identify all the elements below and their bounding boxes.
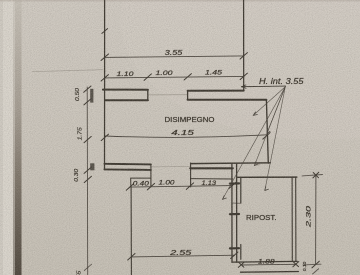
tick dim3 a (126, 184, 133, 191)
right wall of DISIMPEGNO (266, 100, 268, 164)
corridor wall bar 1 (230, 182, 239, 184)
tick 2.55 right (231, 252, 238, 259)
bottom wall right block left jamb (190, 163, 192, 187)
tick chain 0.50 bottom (84, 99, 91, 105)
leader fan line 3 (254, 87, 285, 166)
top-right light sheen (120, 0, 360, 140)
RIPOST right wall inner line (295, 177, 297, 261)
leader fan line 4 (223, 87, 286, 200)
left page-edge light strip (0, 0, 16, 275)
top wall left block right cap (147, 90, 149, 101)
leader fan line 2 (267, 87, 286, 134)
tick dim3 b (147, 183, 154, 190)
arrowhead 3 (254, 162, 258, 166)
tick dim2 d (240, 73, 247, 80)
tick 2.30 top (313, 172, 319, 178)
tick 0.10 bottom (313, 269, 319, 274)
tick chain 0.30 bottom (84, 176, 91, 182)
top door threshold faint (148, 94, 188, 96)
arrowhead 1 (253, 112, 257, 116)
bottom wall lower line (241, 271, 299, 274)
faint exterior line top left (33, 70, 104, 72)
tick 3.55 left (101, 54, 109, 61)
tick 3.55 right (240, 53, 247, 60)
arrowhead 4 (223, 196, 227, 200)
leader fan line 5 (265, 87, 286, 191)
bottom wall upper line (232, 260, 297, 263)
2.30 bottom extension (303, 263, 321, 266)
tick 2.30 bottom (312, 261, 319, 268)
bottom wall right block lower line (191, 178, 233, 180)
dimension line 2.55 (131, 255, 234, 257)
dimension line 1.88 (241, 263, 296, 266)
RIPOST left door jamb mark (233, 202, 241, 204)
top wall left block bottom line (105, 99, 148, 101)
lower-left room wall vertical (130, 187, 132, 275)
bottom wall left band right jamb (150, 164, 152, 186)
tick dim3 c (186, 183, 193, 190)
left dimension chain line (86, 87, 89, 275)
tick 4.15 left (101, 134, 108, 141)
extension 0.40 left vertical (130, 178, 132, 187)
dimension line 0.40/1.00/1.13 (130, 186, 233, 188)
wall extension line left (x=104.6 full) (104, 0, 106, 169)
arrowhead 2 (267, 130, 270, 134)
tick on left extension line (102, 29, 108, 34)
RIPOST right wall outer line (291, 177, 293, 261)
RIPOST top wall (237, 176, 297, 178)
corridor wall left line (231, 163, 233, 262)
arrowhead 5 (265, 187, 269, 191)
wall extension line right (x=243.6) (243, 0, 245, 91)
2.30 top extension (302, 175, 323, 176)
tick dim3 d (229, 182, 236, 189)
top wall right block bottom line (188, 99, 267, 101)
tick dim2 c (184, 74, 191, 80)
west wall stub top (90, 89, 93, 103)
top scan edge (0, 0, 360, 2)
left outer edge shade (0, 0, 3, 275)
tick 1.88 right (293, 262, 299, 267)
corridor wall bar 2 (230, 213, 239, 215)
bottom wall right block upper line (191, 162, 271, 165)
top wall right block top line (188, 90, 244, 92)
west wall stub bottom (90, 163, 94, 170)
corridor wall right line (236, 163, 238, 262)
tick chain bottom (84, 264, 91, 270)
tick chain 0.50 top (84, 86, 91, 92)
leader fan line 1 (253, 87, 285, 116)
corridor wall bar 3 (230, 247, 239, 249)
dimension line 1.10/1.00/1.45 (105, 76, 244, 78)
bottom door threshold faint (151, 165, 191, 168)
tick 1.88 left (238, 262, 244, 267)
top wall right block left cap (187, 91, 189, 100)
bottom wall left band bottom line (104, 168, 150, 171)
top wall left block top line (103, 89, 148, 91)
H int underline arrowhead (242, 85, 247, 88)
RIPOST left wall upper segment (240, 177, 242, 202)
step line above 0.40 (131, 177, 151, 179)
tick 4.15 right (263, 133, 270, 140)
bottom wall right block thick line (190, 167, 233, 169)
tick chain 1.75 (84, 136, 91, 142)
tick dim2 a (101, 75, 108, 81)
RIPOST left wall lower segment (240, 245, 242, 260)
paper fold soft shadow (13, 0, 22, 275)
paper fold dark line (15, 0, 21, 275)
tick 2.55 left (128, 254, 135, 261)
dimension line 4.15 (105, 135, 267, 138)
tick dim2 b (144, 74, 151, 81)
smudge (255, 163, 261, 166)
bottom wall left band top line (104, 163, 150, 166)
dimension line 2.30 vertical (315, 176, 317, 265)
H int underline (242, 85, 286, 88)
dimension line 3.55 (105, 56, 244, 58)
tick chain 0.30 top (84, 167, 91, 173)
